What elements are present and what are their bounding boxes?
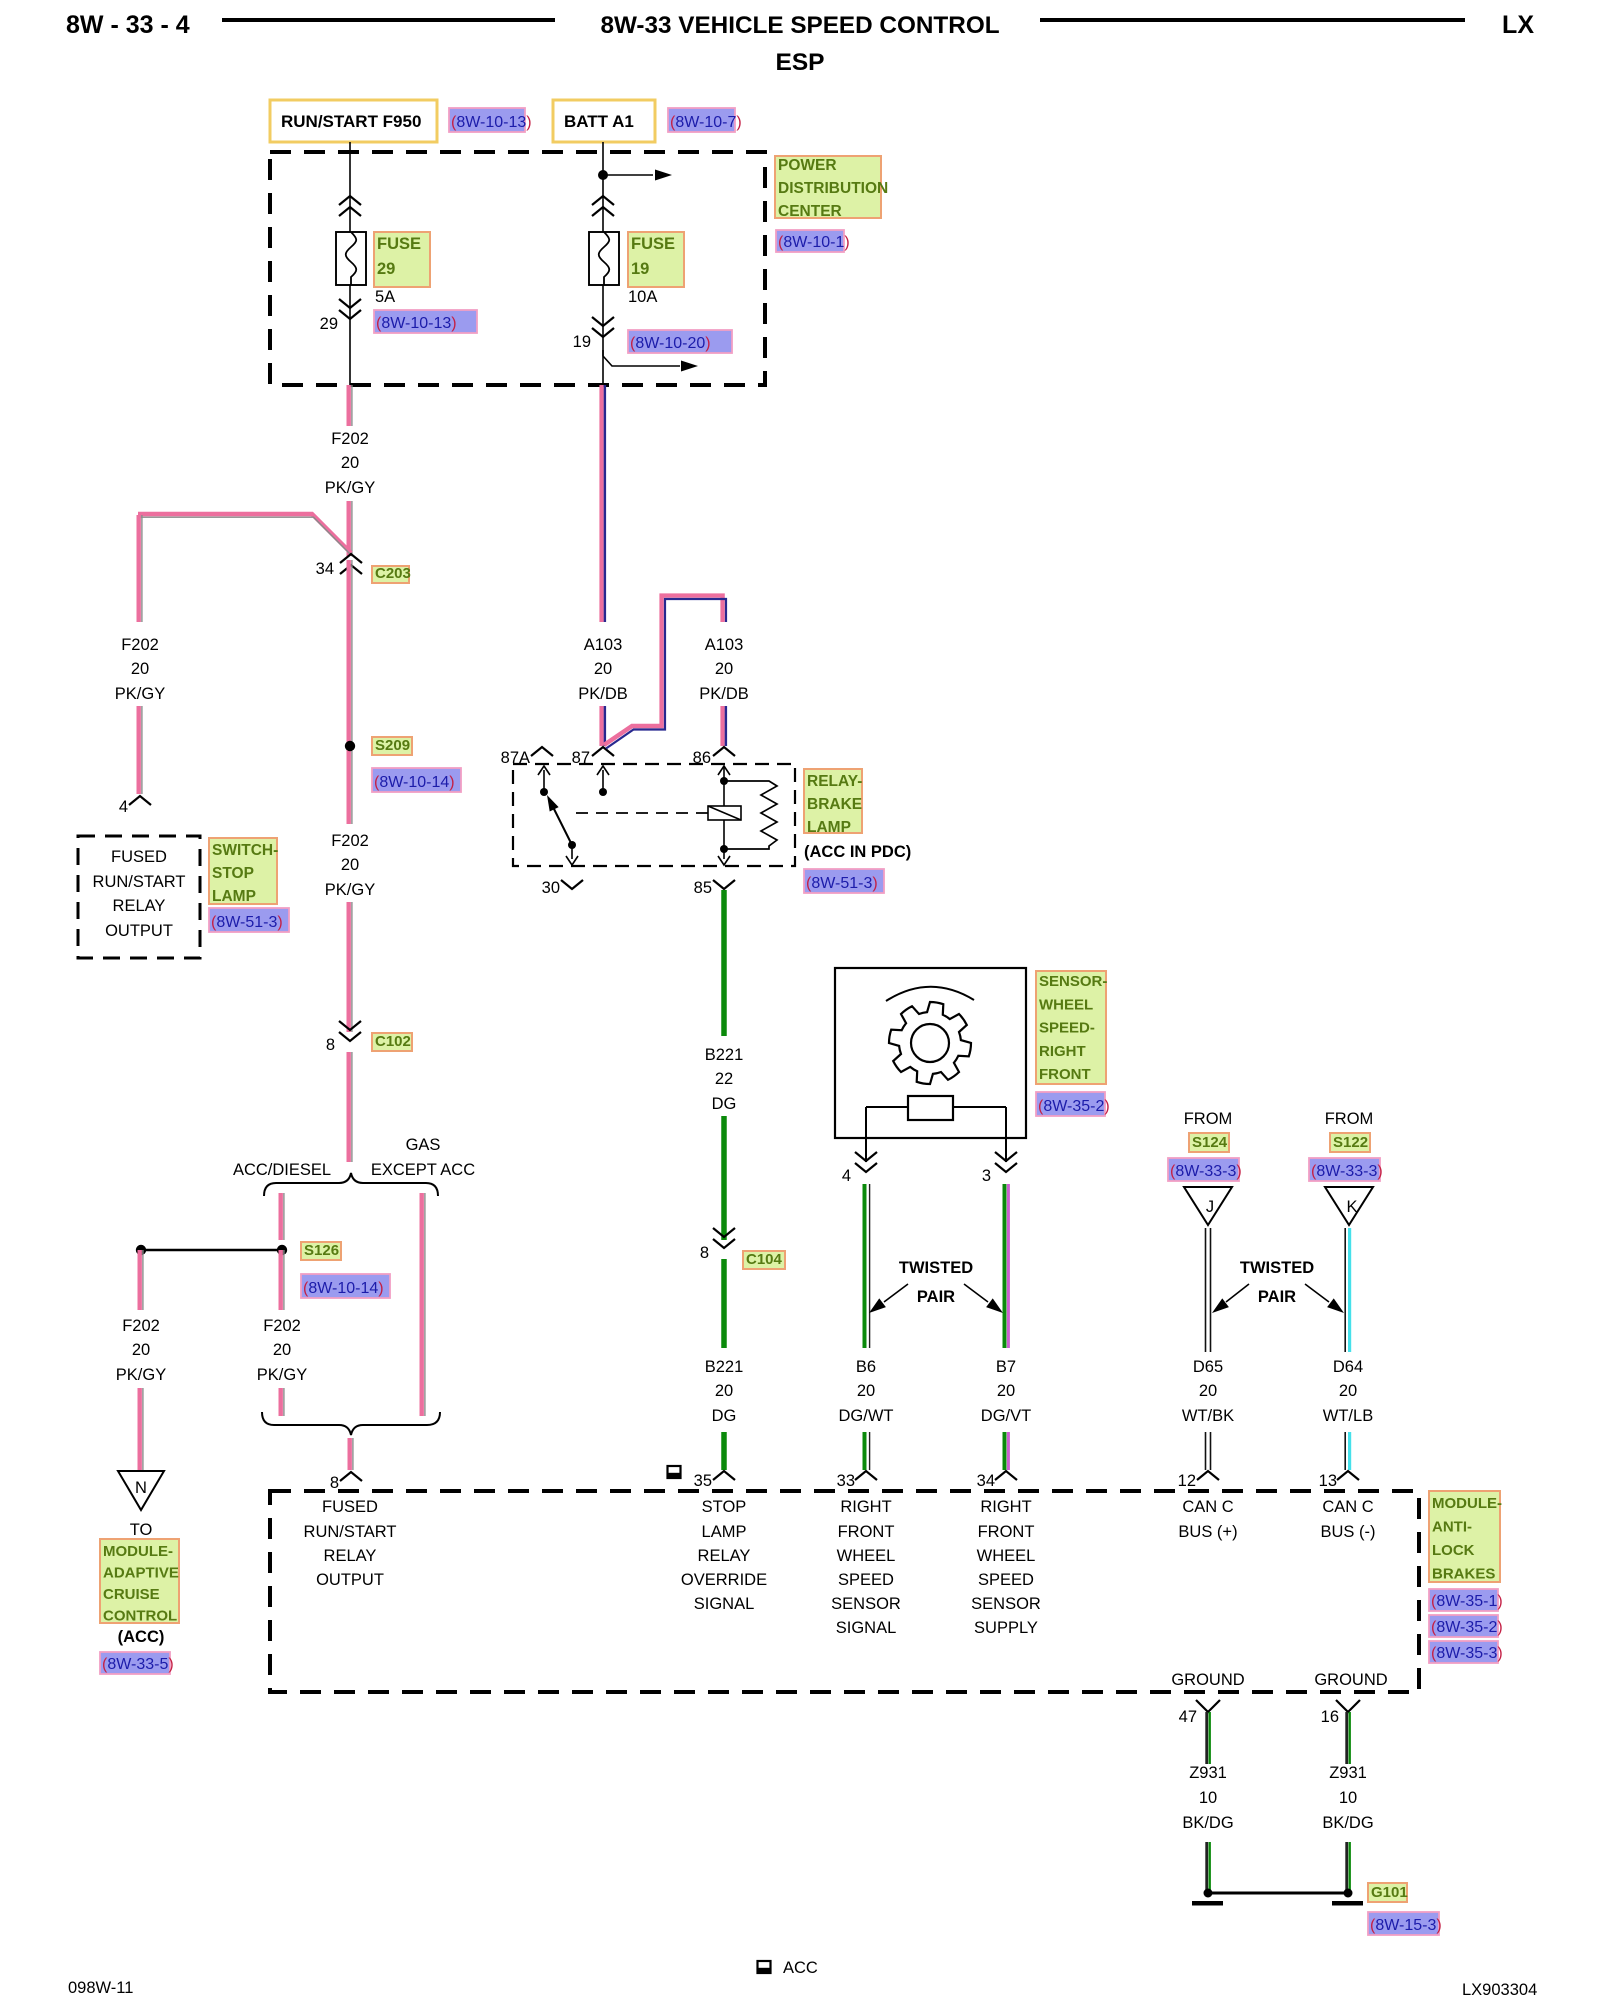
- svg-text:20: 20: [857, 1382, 875, 1400]
- svg-text:DG: DG: [712, 1095, 737, 1113]
- svg-text:STOP: STOP: [702, 1498, 747, 1516]
- wire A103 to relay pin 87: [602, 706, 605, 746]
- svg-text:CENTER: CENTER: [778, 203, 842, 220]
- text STOP LAMP RELAY OVERRIDE SIGNAL: [681, 1498, 767, 1613]
- svg-text:GROUND: GROUND: [1314, 1671, 1387, 1689]
- connector pin 4 chevron: [129, 796, 151, 805]
- svg-text:RELAY: RELAY: [324, 1547, 377, 1565]
- wire F202 below C203: [349, 560, 352, 824]
- wire B221 below C104: [721, 1259, 727, 1348]
- svg-text:29: 29: [320, 315, 338, 333]
- label FUSE 19: [628, 232, 684, 287]
- svg-text:B7: B7: [996, 1358, 1016, 1376]
- svg-text:MODULE-: MODULE-: [103, 1543, 173, 1560]
- relay coil bottom junction: [718, 845, 730, 865]
- fuse F29 symbol: [336, 232, 366, 285]
- wire F202 acc/diesel branch: [281, 1193, 284, 1240]
- svg-text:FROM: FROM: [1184, 1110, 1233, 1128]
- svg-text:RELAY: RELAY: [113, 897, 166, 915]
- svg-text:RELAY: RELAY: [698, 1547, 751, 1565]
- svg-text:WHEEL: WHEEL: [1039, 996, 1093, 1013]
- svg-text:35: 35: [694, 1472, 712, 1490]
- svg-text:S122: S122: [1333, 1134, 1368, 1151]
- connector C102 chevrons pin 8: [339, 1021, 361, 1041]
- link label (8W-10-20) below fuse 19: [628, 330, 732, 353]
- svg-text:SPEED-: SPEED-: [1039, 1020, 1095, 1037]
- label D65 20 WT/BK: [1182, 1358, 1234, 1425]
- label F202 20 PK/GY (to ACC): [116, 1317, 166, 1384]
- svg-text:20: 20: [1339, 1382, 1357, 1400]
- svg-text:20: 20: [997, 1382, 1015, 1400]
- svg-text:FUSED: FUSED: [111, 848, 167, 866]
- brace split top: [264, 1173, 438, 1196]
- label C102: [372, 1033, 412, 1051]
- wire F202 S126 to N: [140, 1250, 143, 1310]
- off-page connector K: [1325, 1187, 1373, 1225]
- svg-text:SENSOR-: SENSOR-: [1039, 973, 1107, 990]
- transfer chevrons on BATT feed: [592, 196, 614, 216]
- ground junction dot left: [1204, 1889, 1213, 1898]
- svg-text:BATT A1: BATT A1: [564, 112, 634, 131]
- svg-text:EXCEPT ACC: EXCEPT ACC: [371, 1161, 475, 1179]
- connector pin 30 chevron: [561, 880, 583, 889]
- svg-text:12: 12: [1178, 1472, 1196, 1490]
- svg-text:RIGHT: RIGHT: [1039, 1043, 1086, 1060]
- text TWISTED PAIR (CAN): [1240, 1259, 1314, 1306]
- svg-text:FUSE: FUSE: [631, 235, 675, 253]
- svg-text:FRONT: FRONT: [1039, 1066, 1091, 1083]
- connector pin 16 fork: [1336, 1700, 1360, 1712]
- svg-text:PK/GY: PK/GY: [115, 685, 165, 703]
- header rule right: [1040, 18, 1465, 22]
- svg-text:(8W-35-2): (8W-35-2): [1431, 1619, 1503, 1636]
- svg-text:DG/WT: DG/WT: [839, 1407, 894, 1425]
- wire D64 into ABS module: [1345, 1432, 1349, 1470]
- label MODULE-ANTI-LOCK BRAKES: [1429, 1491, 1502, 1583]
- svg-text:20: 20: [715, 660, 733, 678]
- link label (8W-15-3): [1368, 1912, 1442, 1935]
- svg-text:BUS (-): BUS (-): [1321, 1523, 1376, 1541]
- wire F202 acc/diesel to brace: [281, 1388, 284, 1416]
- wire A103 branch 87 to 86: [604, 596, 726, 749]
- svg-text:C203: C203: [375, 565, 411, 582]
- svg-text:CRUISE: CRUISE: [103, 1586, 160, 1603]
- svg-text:FROM: FROM: [1325, 1110, 1374, 1128]
- connector pin 87A chevron: [531, 747, 553, 756]
- relay coil pin 86 post: [718, 766, 730, 806]
- link label (8W-51-3) at relay: [804, 869, 884, 893]
- link label (8W-10-13) for RUN/START feed: [449, 108, 532, 132]
- connector pin 86 chevron: [713, 747, 735, 756]
- svg-text:LX: LX: [1502, 11, 1534, 39]
- svg-text:BK/DG: BK/DG: [1322, 1814, 1373, 1832]
- svg-text:ACC: ACC: [783, 1959, 818, 1977]
- wire fuse 29 to PDC bottom: [349, 285, 351, 385]
- label F202 20 PK/GY (acc/diesel): [257, 1317, 307, 1384]
- svg-text:34: 34: [977, 1472, 995, 1490]
- svg-text:33: 33: [837, 1472, 855, 1490]
- link label (8W-33-3) left: [1168, 1158, 1242, 1181]
- wire A103 below PDC: [602, 385, 605, 622]
- svg-text:A103: A103: [705, 636, 744, 654]
- sensor element rect: [908, 1096, 953, 1120]
- ground tie wire: [1208, 1892, 1348, 1895]
- svg-text:SPEED: SPEED: [838, 1571, 894, 1589]
- connector pin 34 chevron: [995, 1471, 1017, 1480]
- link label (8W-33-3) right: [1309, 1158, 1383, 1181]
- svg-text:MODULE-: MODULE-: [1432, 1495, 1502, 1512]
- svg-text:CAN C: CAN C: [1322, 1498, 1373, 1516]
- ground symbol left: [1192, 1901, 1223, 1906]
- svg-text:SWITCH-: SWITCH-: [212, 842, 278, 859]
- fuse F19 symbol: [589, 232, 619, 285]
- connector pin 87 chevron: [592, 747, 614, 756]
- svg-text:29: 29: [377, 260, 395, 278]
- svg-text:GROUND: GROUND: [1171, 1671, 1244, 1689]
- svg-text:8: 8: [326, 1036, 335, 1054]
- svg-text:C102: C102: [375, 1033, 411, 1050]
- svg-text:J: J: [1206, 1198, 1214, 1216]
- wire B221 into ABS module: [721, 1432, 727, 1470]
- svg-text:Z931: Z931: [1329, 1764, 1367, 1782]
- label B7 20 DG/VT: [981, 1358, 1031, 1425]
- svg-text:GAS: GAS: [406, 1136, 441, 1154]
- svg-text:10: 10: [1339, 1789, 1357, 1807]
- svg-text:LOCK: LOCK: [1432, 1542, 1475, 1559]
- transfer chevrons on run/start feed: [339, 196, 361, 216]
- text RIGHT FRONT WHEEL SPEED SENSOR SIGNAL: [831, 1498, 901, 1637]
- off-page connector N: [118, 1471, 164, 1510]
- connector pin 47 fork: [1196, 1700, 1220, 1712]
- brace merge bottom: [262, 1412, 440, 1435]
- splice S126 tie line: [141, 1249, 282, 1251]
- label D64 20 WT/LB: [1323, 1358, 1373, 1425]
- svg-text:(8W-10-14): (8W-10-14): [374, 774, 455, 791]
- connector chevrons below fuse 29: [339, 299, 361, 319]
- junction dot on BATT feed: [598, 170, 608, 180]
- wire B7 20 DG/VT: [1005, 1184, 1009, 1348]
- svg-text:ESP: ESP: [775, 49, 824, 76]
- label SENSOR-WHEEL SPEED-RIGHT FRONT: [1036, 971, 1107, 1084]
- splice S126 dot left: [136, 1245, 146, 1255]
- footnote icon ACC: [758, 1961, 771, 1973]
- splice S126 dot right: [277, 1245, 287, 1255]
- connector pin 33 chevron: [855, 1471, 877, 1480]
- sensor tone-ring arc: [886, 987, 974, 1001]
- svg-text:SPEED: SPEED: [978, 1571, 1034, 1589]
- label F202 20 PK/GY (left): [115, 636, 165, 703]
- svg-text:B221: B221: [705, 1046, 744, 1064]
- label F202 20 PK/GY (middle): [325, 832, 375, 899]
- label SWITCH-STOP LAMP: [209, 838, 278, 905]
- svg-text:S209: S209: [375, 737, 410, 754]
- label C203: [372, 565, 411, 583]
- label S209: [372, 737, 412, 755]
- wire D64 20 WT/LB: [1345, 1228, 1349, 1352]
- svg-text:RUN/START: RUN/START: [304, 1523, 397, 1541]
- svg-text:PK/DB: PK/DB: [699, 685, 749, 703]
- splice S209 dot: [345, 741, 355, 751]
- svg-text:30: 30: [542, 879, 560, 897]
- relay common pin 30 post: [566, 841, 578, 865]
- arrow branch right near PDC bottom: [603, 350, 698, 372]
- svg-text:ANTI-: ANTI-: [1432, 1519, 1472, 1536]
- label A103 20 PK/DB (right): [699, 636, 749, 703]
- svg-text:20: 20: [132, 1341, 150, 1359]
- svg-text:A103: A103: [584, 636, 623, 654]
- svg-text:(8W-35-2): (8W-35-2): [1038, 1098, 1110, 1115]
- connector C203 chevron pin 34: [340, 554, 362, 574]
- svg-text:F202: F202: [263, 1317, 301, 1335]
- relay coil shunt resistor: [724, 781, 777, 849]
- wire F202 except-acc branch: [422, 1193, 425, 1416]
- svg-text:SIGNAL: SIGNAL: [694, 1595, 755, 1613]
- arrow branch right from BATT feed: [603, 170, 672, 181]
- link label (8W-10-14) at S126: [301, 1274, 390, 1298]
- svg-text:20: 20: [273, 1341, 291, 1359]
- off-page connector J: [1184, 1187, 1232, 1225]
- label B221 20 DG: [705, 1358, 744, 1425]
- svg-text:(8W-33-5): (8W-33-5): [102, 1656, 174, 1673]
- svg-text:(8W-10-7): (8W-10-7): [670, 114, 742, 131]
- svg-text:34: 34: [316, 560, 334, 578]
- svg-text:PK/GY: PK/GY: [257, 1366, 307, 1384]
- text FUSED RUN/START RELAY OUTPUT (module): [304, 1498, 397, 1589]
- connector pin 8 chevron into ABS module: [340, 1472, 362, 1481]
- svg-text:87A: 87A: [501, 749, 530, 767]
- label G101: [1368, 1883, 1408, 1902]
- svg-text:SUPPLY: SUPPLY: [974, 1619, 1038, 1637]
- connector pin 4 chevrons at sensor: [855, 1152, 877, 1172]
- svg-text:4: 4: [842, 1167, 851, 1185]
- svg-text:5A: 5A: [375, 288, 395, 306]
- svg-text:FRONT: FRONT: [838, 1523, 895, 1541]
- twisted pair arrow right (sensor): [964, 1284, 1003, 1313]
- connector chevrons below fuse 19: [592, 317, 614, 337]
- svg-text:PK/DB: PK/DB: [578, 685, 628, 703]
- svg-text:8W - 33 - 4: 8W - 33 - 4: [66, 11, 190, 39]
- svg-text:SIGNAL: SIGNAL: [836, 1619, 897, 1637]
- wire BATT feed into PDC: [602, 142, 604, 232]
- sensor lead right: [1005, 1107, 1007, 1162]
- label S124: [1189, 1133, 1229, 1152]
- label B221 22 DG: [705, 1046, 744, 1113]
- header rule left: [222, 18, 555, 22]
- wire Z931 right upper: [1347, 1712, 1350, 1764]
- svg-text:19: 19: [573, 333, 591, 351]
- svg-text:16: 16: [1321, 1708, 1339, 1726]
- relay brake lamp dashed box: [513, 764, 795, 866]
- feed box BATT A1: [553, 100, 655, 142]
- svg-text:F202: F202: [331, 430, 369, 448]
- wire F202 below PDC: [349, 385, 352, 426]
- link label (8W-51-3) left: [209, 908, 289, 932]
- svg-text:85: 85: [694, 879, 712, 897]
- power distribution center dashed box: [270, 152, 765, 385]
- sensor-wheel speed right front box: [835, 968, 1026, 1138]
- svg-text:F202: F202: [121, 636, 159, 654]
- svg-text:47: 47: [1179, 1708, 1197, 1726]
- relay coil symbol: [708, 806, 741, 849]
- relay pin 87 post: [597, 766, 609, 796]
- wire F202 below S126 middle: [281, 1250, 284, 1310]
- svg-text:10: 10: [1199, 1789, 1217, 1807]
- svg-text:RELAY-: RELAY-: [807, 773, 862, 790]
- svg-text:RIGHT: RIGHT: [980, 1498, 1031, 1516]
- wire F202 below C102: [349, 1052, 352, 1162]
- wire F202 to C102: [349, 902, 352, 1032]
- text FUSED RUN/START RELAY OUTPUT: [93, 848, 186, 940]
- svg-text:8: 8: [330, 1474, 339, 1492]
- wire D65 into ABS module: [1206, 1432, 1211, 1470]
- svg-text:TWISTED: TWISTED: [899, 1259, 973, 1277]
- text TWISTED PAIR (sensor): [899, 1259, 973, 1306]
- svg-text:(ACC IN PDC): (ACC IN PDC): [804, 843, 911, 861]
- svg-text:20: 20: [341, 454, 359, 472]
- svg-text:S126: S126: [304, 1242, 339, 1259]
- svg-text:FUSED: FUSED: [322, 1498, 378, 1516]
- svg-text:20: 20: [341, 856, 359, 874]
- svg-text:(8W-51-3): (8W-51-3): [806, 875, 878, 892]
- feed box RUN/START F950: [270, 100, 437, 142]
- wire F202 into N triangle: [140, 1388, 143, 1470]
- label POWER DISTRIBUTION CENTER: [775, 156, 888, 220]
- svg-text:PAIR: PAIR: [917, 1288, 955, 1306]
- svg-text:(8W-10-20): (8W-10-20): [630, 335, 711, 352]
- svg-text:B221: B221: [705, 1358, 744, 1376]
- link label (8W-35-2): [1036, 1092, 1110, 1116]
- svg-text:10A: 10A: [628, 288, 657, 306]
- svg-text:PK/GY: PK/GY: [325, 479, 375, 497]
- svg-text:19: 19: [631, 260, 649, 278]
- svg-text:(8W-35-1): (8W-35-1): [1431, 1593, 1503, 1610]
- fused run/start relay output dashed box: [78, 836, 200, 958]
- sensor lead left: [865, 1107, 867, 1162]
- wire B6 into ABS module: [865, 1432, 870, 1470]
- svg-text:(ACC): (ACC): [118, 1628, 165, 1646]
- connector pin 3 chevrons at sensor: [995, 1152, 1017, 1172]
- svg-text:(8W-33-3): (8W-33-3): [1170, 1163, 1242, 1180]
- svg-text:N: N: [135, 1479, 147, 1497]
- svg-text:RUN/START: RUN/START: [93, 873, 186, 891]
- svg-text:PAIR: PAIR: [1258, 1288, 1296, 1306]
- ground symbol right: [1332, 1901, 1363, 1906]
- link label (8W-33-5): [100, 1652, 174, 1674]
- svg-text:OUTPUT: OUTPUT: [105, 922, 173, 940]
- svg-text:DG: DG: [712, 1407, 737, 1425]
- svg-text:FUSE: FUSE: [377, 235, 421, 253]
- svg-text:8: 8: [700, 1244, 709, 1262]
- label S122: [1330, 1133, 1370, 1152]
- svg-text:LAMP: LAMP: [702, 1523, 747, 1541]
- wire B6 20 DG/WT: [865, 1184, 870, 1348]
- svg-text:(8W-10-13): (8W-10-13): [376, 315, 457, 332]
- twisted pair arrow left (CAN): [1212, 1284, 1249, 1313]
- svg-text:D64: D64: [1333, 1358, 1363, 1376]
- svg-text:4: 4: [119, 798, 128, 816]
- svg-text:ACC/DIESEL: ACC/DIESEL: [233, 1161, 331, 1179]
- svg-text:Z931: Z931: [1189, 1764, 1227, 1782]
- twisted pair arrow right (CAN): [1305, 1284, 1344, 1313]
- sensor internal wire: [866, 1106, 1006, 1108]
- svg-text:BUS (+): BUS (+): [1178, 1523, 1237, 1541]
- svg-text:K: K: [1346, 1198, 1357, 1216]
- svg-text:20: 20: [1199, 1382, 1217, 1400]
- svg-text:C104: C104: [746, 1251, 783, 1268]
- svg-text:G101: G101: [1371, 1884, 1408, 1901]
- svg-text:CAN C: CAN C: [1182, 1498, 1233, 1516]
- label RELAY-BRAKE LAMP: [804, 769, 862, 836]
- svg-text:DISTRIBUTION: DISTRIBUTION: [778, 180, 888, 197]
- svg-text:B6: B6: [856, 1358, 876, 1376]
- connector pin 13 chevron: [1337, 1471, 1359, 1480]
- twisted pair arrow left (sensor): [869, 1284, 908, 1313]
- svg-text:20: 20: [131, 660, 149, 678]
- label A103 20 PK/DB (left): [578, 636, 628, 703]
- label FUSE 29: [374, 232, 430, 287]
- text RIGHT FRONT WHEEL SPEED SENSOR SUPPLY: [971, 1498, 1041, 1637]
- wire Z931 right lower: [1347, 1842, 1350, 1890]
- svg-text:OUTPUT: OUTPUT: [316, 1571, 384, 1589]
- svg-text:(8W-10-13): (8W-10-13): [451, 114, 532, 131]
- label S126: [301, 1242, 341, 1260]
- svg-text:3: 3: [982, 1167, 991, 1185]
- svg-text:20: 20: [594, 660, 612, 678]
- wire F202 branch to left: [138, 514, 352, 556]
- svg-text:(8W-10-14): (8W-10-14): [303, 1280, 384, 1297]
- ground junction dot right: [1344, 1889, 1353, 1898]
- svg-text:FRONT: FRONT: [978, 1523, 1035, 1541]
- wire A103 to relay pin 86: [723, 706, 726, 746]
- svg-text:8W-33 VEHICLE SPEED CONTROL: 8W-33 VEHICLE SPEED CONTROL: [600, 12, 999, 39]
- link label (8W-10-7) for BATT feed: [668, 108, 742, 132]
- svg-text:(8W-33-3): (8W-33-3): [1311, 1163, 1383, 1180]
- svg-text:TO: TO: [130, 1521, 153, 1539]
- connector pin 12 chevron: [1197, 1471, 1219, 1480]
- svg-text:F202: F202: [122, 1317, 160, 1335]
- svg-text:OVERRIDE: OVERRIDE: [681, 1571, 767, 1589]
- svg-text:LAMP: LAMP: [212, 888, 256, 905]
- svg-text:WT/BK: WT/BK: [1182, 1407, 1234, 1425]
- svg-text:RUN/START F950: RUN/START F950: [281, 112, 421, 131]
- svg-text:RIGHT: RIGHT: [840, 1498, 891, 1516]
- svg-text:PK/GY: PK/GY: [116, 1366, 166, 1384]
- svg-text:S124: S124: [1192, 1134, 1228, 1151]
- svg-text:20: 20: [715, 1382, 733, 1400]
- svg-text:BRAKE: BRAKE: [807, 796, 862, 813]
- wire B221 22 DG from relay: [721, 890, 727, 1036]
- relay coil link dashed: [576, 812, 708, 814]
- label B6 20 DG/WT: [839, 1358, 894, 1425]
- svg-text:BRAKES: BRAKES: [1432, 1566, 1495, 1583]
- svg-text:098W-11: 098W-11: [68, 1979, 133, 1997]
- svg-text:STOP: STOP: [212, 865, 254, 882]
- label Z931 10 BK/DG right: [1322, 1764, 1373, 1832]
- module anti-lock brakes dashed box: [270, 1491, 1419, 1692]
- label C104: [743, 1251, 785, 1269]
- svg-text:(8W-10-1): (8W-10-1): [778, 234, 850, 251]
- svg-text:D65: D65: [1193, 1358, 1223, 1376]
- svg-text:22: 22: [715, 1070, 733, 1088]
- svg-text:LAMP: LAMP: [807, 819, 851, 836]
- label F202 20 PK/GY (top): [325, 430, 375, 497]
- wire D65 20 WT/BK: [1206, 1228, 1211, 1352]
- link label (8W-10-1): [776, 230, 850, 252]
- sensor gear icon: [889, 1002, 971, 1084]
- wire B7 into ABS module: [1005, 1432, 1009, 1470]
- svg-text:CONTROL: CONTROL: [103, 1608, 177, 1625]
- wire RUN/START feed into PDC: [349, 142, 351, 232]
